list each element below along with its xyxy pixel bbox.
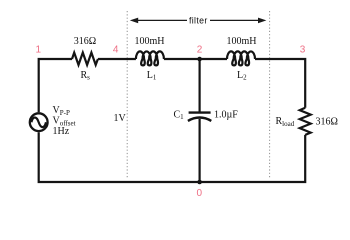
svg-text:Rs: Rs — [81, 70, 91, 82]
source label 1Hz — [53, 126, 70, 137]
node 2 junction dot — [197, 57, 202, 62]
wire: L1 to L2 through node 2 — [164, 58, 227, 60]
ref label Rs — [81, 70, 91, 82]
svg-text:316Ω: 316Ω — [74, 36, 96, 47]
ref label L1 — [147, 70, 157, 82]
svg-text:1.0µF: 1.0µF — [214, 109, 238, 120]
filter label with double arrow — [130, 15, 267, 25]
wire: Rload bottom, bottom rail, left rail bottom — [39, 132, 306, 182]
svg-text:2: 2 — [197, 44, 203, 55]
value label 100mH for L1 — [135, 36, 165, 47]
node 1 label — [36, 44, 42, 55]
wire: capacitor C1 down to bottom rail — [199, 119, 201, 182]
svg-text:L1: L1 — [147, 70, 157, 82]
resistor Rs zigzag — [72, 53, 98, 65]
node 3 label — [300, 44, 306, 55]
node 2 label — [197, 44, 203, 55]
value label 316Ω for Rload — [316, 117, 338, 128]
svg-text:L2: L2 — [237, 70, 247, 82]
value label 316Ω for Rs — [74, 36, 96, 47]
svg-text:Rload: Rload — [276, 116, 295, 128]
svg-text:C1: C1 — [174, 109, 185, 121]
ref label L2 — [237, 70, 247, 82]
wire: node 2 down to capacitor C1 — [199, 59, 201, 112]
source V1 circle with sine — [30, 113, 48, 131]
wire: node1 top-left corner to Rs, and left rail down to source — [39, 59, 72, 112]
svg-text:100mH: 100mH — [227, 36, 257, 47]
wire: L2 to node 3 corner down to Rload — [255, 59, 305, 108]
capacitor C1 — [188, 113, 211, 121]
ref label Rload — [276, 116, 295, 128]
resistor Rload zigzag (vertical) — [300, 108, 311, 135]
svg-text:4: 4 — [113, 44, 119, 55]
svg-text:3: 3 — [300, 44, 306, 55]
dotted boundary line right (filter section) — [269, 11, 271, 178]
svg-text:1V: 1V — [114, 113, 127, 124]
node 0 label — [197, 188, 203, 199]
svg-text:100mH: 100mH — [135, 36, 165, 47]
value label 1.0µF for C1 — [214, 109, 238, 120]
source label V P-P — [53, 105, 70, 117]
ref label C1 — [174, 109, 185, 121]
node 4 label — [113, 44, 119, 55]
wire: Rs to L1 (node 4 on it) — [98, 58, 136, 60]
svg-text:1: 1 — [36, 44, 42, 55]
svg-text:0: 0 — [197, 188, 203, 199]
svg-text:filter: filter — [189, 15, 208, 25]
dotted boundary line left (filter section) — [126, 11, 128, 178]
inductor L2 coil — [227, 51, 255, 65]
node voltage label 1V — [114, 113, 127, 124]
source label V offset — [53, 116, 76, 128]
inductor L1 coil — [136, 51, 164, 65]
svg-text:316Ω: 316Ω — [316, 117, 338, 128]
node 0 junction dot — [197, 180, 202, 185]
svg-text:1Hz: 1Hz — [53, 126, 70, 137]
value label 100mH for L2 — [227, 36, 257, 47]
